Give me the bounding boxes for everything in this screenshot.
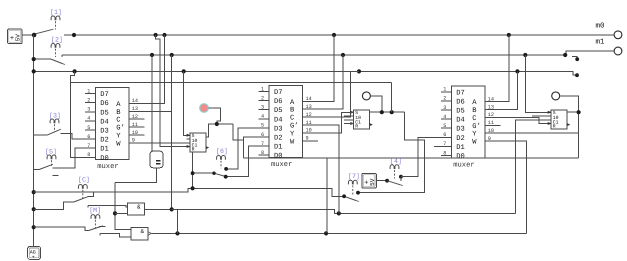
- wire FF1 pin2 stub: [187, 138, 191, 140]
- node row227 tap: [32, 225, 36, 229]
- svg-text:12: 12: [488, 112, 494, 118]
- switch 1 actuator coil: [51, 16, 60, 20]
- switch 1 right contact: [72, 33, 76, 37]
- switch 1 actuator link: [55, 21, 57, 29]
- wire bus2 down to pulse box: [151, 55, 153, 151]
- switch 5 actuator coil: [47, 155, 56, 159]
- svg-text:D3: D3: [456, 126, 465, 134]
- flip-flop FF1 body: [190, 133, 206, 153]
- svg-text:B: B: [116, 109, 120, 117]
- wire bus1 to muxer U3 pin14: [495, 35, 509, 102]
- ground AG symbol: [28, 246, 41, 260]
- red probe LED: [200, 104, 209, 113]
- svg-text:W: W: [290, 138, 295, 146]
- node row192 tap: [32, 190, 36, 194]
- wire FF1 branch to switch 6: [193, 172, 214, 174]
- wire red probe to FF1 output: [208, 108, 220, 124]
- svg-text:12: 12: [132, 114, 138, 120]
- power source PS1 +5V: [8, 29, 23, 44]
- svg-text:+: +: [10, 35, 14, 43]
- muxer U3 body: [451, 86, 485, 170]
- svg-text:m1: m1: [596, 38, 606, 46]
- svg-text:D4: D4: [274, 116, 283, 124]
- wire gate G2 second input: [100, 234, 131, 237]
- svg-text:B: B: [290, 107, 294, 115]
- svg-text:6: 6: [261, 132, 264, 138]
- wire row212 to FF3 R input: [516, 120, 551, 214]
- switch 7 actuator link: [352, 185, 354, 194]
- svg-text:11: 11: [488, 120, 494, 126]
- svg-text:2: 2: [443, 96, 446, 102]
- svg-text:4: 4: [261, 114, 264, 120]
- wire row192 long to switch 7: [34, 188, 344, 196]
- wire row233 to muxer U3 pin9: [495, 141, 526, 233]
- svg-text:3: 3: [261, 105, 264, 111]
- wire muxer U2 Y to FF2 S: [313, 112, 354, 133]
- svg-text:[5]: [5]: [45, 148, 57, 155]
- svg-text:D2: D2: [456, 135, 465, 143]
- svg-text:9: 9: [306, 136, 309, 142]
- wire main left column: [33, 35, 35, 246]
- svg-text:&: &: [141, 228, 145, 235]
- switch 4 lever: [387, 181, 403, 186]
- wire FF3 output: [567, 111, 579, 113]
- wire switch 3 feed: [34, 134, 48, 136]
- svg-text:5: 5: [443, 123, 446, 129]
- output pin m1: [614, 47, 622, 55]
- svg-text:D7: D7: [274, 89, 283, 97]
- flip-flop FF2 body: [354, 110, 370, 130]
- svg-text:+: +: [32, 255, 35, 261]
- svg-text:10: 10: [132, 130, 138, 136]
- wire bus2 to muxer U2 pin13: [313, 55, 343, 109]
- node row233 b: [324, 231, 328, 235]
- node FF3 out: [577, 110, 581, 114]
- switch 2 actuator coil: [51, 44, 60, 48]
- svg-text:10: 10: [306, 128, 312, 134]
- svg-text:4: 4: [443, 114, 446, 120]
- wire long feedback row82: [71, 82, 392, 84]
- svg-text:D3: D3: [100, 128, 109, 136]
- switch 7 lever: [344, 196, 359, 201]
- switch 3 actuator link: [54, 124, 56, 132]
- svg-text:B: B: [472, 107, 476, 115]
- svg-text:12: 12: [306, 112, 312, 118]
- switch 7 actuator coil: [348, 180, 357, 184]
- wire bus3 to FF1 S input: [184, 71, 190, 135]
- flip-flop FF2 input markers: [350, 111, 354, 125]
- switch 6 actuator coil: [217, 156, 226, 160]
- svg-text:muxer: muxer: [453, 161, 474, 169]
- wire bus3: [34, 71, 577, 75]
- wire FF2 C1 stub: [344, 115, 354, 117]
- node switch 4 common: [385, 179, 389, 183]
- output circle FF3: [552, 92, 560, 100]
- svg-text:R: R: [553, 124, 556, 130]
- switch M contact dash: [99, 225, 106, 227]
- wire FF1 Q to muxer U2 pin6 net: [233, 124, 244, 140]
- node bus1 to rounded box: [154, 33, 158, 37]
- svg-text:6: 6: [443, 132, 446, 138]
- switch 6 lower contact to muxer U2 pin7: [224, 146, 259, 179]
- wire bus2 down to gate row: [171, 55, 173, 209]
- svg-text:&: &: [137, 204, 141, 211]
- wire pulse column down to gate G2: [115, 183, 131, 230]
- svg-text:10: 10: [488, 128, 494, 134]
- svg-text:W: W: [472, 139, 477, 147]
- node bus3 to muxer U1 D0: [73, 69, 77, 73]
- svg-text:D0: D0: [100, 155, 109, 163]
- wire FF3 C1 stub: [532, 115, 551, 117]
- wire muxer U3 pin7 stub ext: [434, 145, 441, 147]
- svg-text:D4: D4: [100, 118, 109, 126]
- svg-text:[7]: [7]: [348, 173, 360, 180]
- svg-text:D4: D4: [456, 117, 465, 125]
- svg-text:3: 3: [87, 107, 90, 113]
- wire row158 drop to row233: [326, 158, 328, 233]
- switch M lever: [89, 226, 103, 231]
- wire bus3 to muxer U1 pin8: [71, 71, 85, 157]
- switch 5 lever: [40, 164, 53, 169]
- switch 3 contact and wire to muxer U1 pin6: [61, 134, 85, 140]
- svg-text:D7: D7: [456, 89, 465, 97]
- gate G2 second input tick: [99, 234, 101, 236]
- wire FF2 R stub: [344, 119, 354, 121]
- svg-text:11: 11: [132, 122, 138, 128]
- wire +5V2 to switch 4: [376, 180, 387, 182]
- svg-text:6: 6: [87, 134, 90, 140]
- wire pulse box down to gate column: [115, 168, 156, 183]
- node bus3 to muxer U3 B: [515, 69, 519, 73]
- svg-text:Y: Y: [290, 130, 295, 138]
- switch 4 contact: [399, 175, 403, 181]
- node row209 tap: [32, 207, 36, 211]
- svg-text:3: 3: [443, 105, 446, 111]
- muxer U1 right pins 14-9: [129, 98, 145, 144]
- switch 6 lever: [214, 173, 228, 177]
- wire bus1 to muxer U2 pin14: [313, 35, 334, 101]
- svg-text:[4]: [4]: [390, 158, 402, 165]
- svg-text:[6]: [6]: [216, 148, 228, 155]
- wire muxer U2 pin6 stub down: [243, 137, 258, 158]
- svg-text:7: 7: [87, 143, 90, 149]
- svg-text:D7: D7: [100, 91, 109, 99]
- svg-text:8: 8: [87, 152, 90, 158]
- node bus1 to muxer U1 A: [162, 33, 166, 37]
- svg-text:S: S: [355, 110, 358, 116]
- node gate G1 output: [170, 207, 174, 211]
- switch 2 upper contact tick: [61, 55, 63, 57]
- wire row209 to switch C pivot: [34, 202, 74, 210]
- switch 3 lever: [48, 129, 61, 135]
- wire link gate rows: [177, 209, 179, 233]
- muxer U3 left pins 1-8: [441, 87, 452, 157]
- wire row227 to switch M: [34, 227, 89, 230]
- wire row212 to muxer U2 pin11: [313, 125, 339, 213]
- svg-text:D2: D2: [100, 137, 109, 145]
- wire bus1 (row m0): [64, 34, 614, 36]
- svg-text:S: S: [553, 110, 556, 116]
- svg-text:2: 2: [261, 95, 264, 101]
- svg-text:D6: D6: [456, 98, 465, 106]
- node FF2 out a: [380, 110, 384, 114]
- switch C actuator coil: [78, 185, 87, 189]
- svg-text:[3]: [3]: [49, 112, 61, 119]
- svg-text:C: C: [472, 115, 476, 123]
- switch 4 actuator coil: [390, 165, 399, 169]
- flip-flop FF3 input markers: [548, 111, 552, 125]
- wire muxer U1 W to FF1 C1 input: [129, 142, 190, 144]
- svg-text:W: W: [116, 140, 121, 148]
- wire row212 long: [172, 209, 516, 213]
- node bus3 end contact: [575, 73, 579, 77]
- wire FF2 out to switch 7 contact: [358, 112, 425, 193]
- svg-text:A: A: [290, 99, 295, 107]
- svg-text:A: A: [472, 99, 477, 107]
- wire bus1 jog down to FF1 R: [156, 35, 190, 147]
- node pulse column: [113, 211, 117, 215]
- svg-text:13: 13: [488, 104, 494, 110]
- svg-text:4: 4: [87, 116, 90, 122]
- svg-text:5V: 5V: [15, 34, 22, 42]
- svg-text:D0: D0: [274, 153, 283, 161]
- wire FF2 lower stub: [344, 123, 354, 125]
- node bus3 to flip-flop FF1: [182, 69, 186, 73]
- svg-text:1: 1: [443, 87, 446, 93]
- wire node to gate G1 lower input: [115, 212, 127, 214]
- svg-text:7: 7: [261, 141, 264, 147]
- switch C lower contact tick: [87, 205, 89, 207]
- muxer U2 left pins 1-8: [259, 86, 270, 156]
- node bus3 to muxer U2 C: [357, 69, 361, 73]
- switch 5 upper contact and wire to muxer U1 pin7: [53, 148, 85, 168]
- wire row158 long: [243, 157, 578, 159]
- svg-text:1: 1: [261, 86, 264, 92]
- switch m1 open contact: [572, 57, 579, 62]
- node bus2 to muxer U1 B: [170, 53, 174, 57]
- flip-flop FF2 output arrow: [370, 123, 373, 126]
- switch C lower contact to gate G1: [88, 205, 127, 207]
- wire gate G1 output: [145, 208, 172, 210]
- node bus1 to muxer U2 A: [332, 33, 336, 37]
- svg-text:[C]: [C]: [78, 176, 90, 183]
- and gate G2: [131, 228, 151, 241]
- svg-text:D5: D5: [456, 108, 465, 116]
- switch C lever: [74, 196, 89, 202]
- power source PS2 +5V: [362, 174, 377, 189]
- svg-text:1: 1: [87, 88, 90, 94]
- wire row233 long: [151, 232, 526, 234]
- node FF2 out b: [390, 110, 394, 114]
- switch 2 lever: [51, 59, 65, 64]
- muxer U2 right pins 14-9: [303, 96, 319, 142]
- node row212 to muxer U2 G': [337, 211, 341, 215]
- node FF1 Q junction: [215, 122, 219, 126]
- svg-text:C: C: [290, 115, 294, 123]
- wire FF2 output row: [369, 111, 404, 113]
- wire bus3 to muxer U3 pin13: [495, 71, 517, 109]
- node m1 switch common: [563, 53, 567, 57]
- switch M actuator coil: [91, 215, 100, 219]
- svg-text:S: S: [192, 133, 195, 139]
- svg-text:D6: D6: [100, 100, 109, 108]
- svg-text:8: 8: [443, 150, 446, 156]
- switch C upper contact link: [88, 192, 94, 196]
- svg-text:14: 14: [306, 96, 312, 102]
- svg-text:2: 2: [87, 98, 90, 104]
- muxer U3 right pins 14-9: [485, 96, 501, 141]
- flip-flop FF3 output arrow: [567, 123, 570, 126]
- svg-text:G’: G’: [116, 124, 125, 133]
- svg-text:D5: D5: [100, 109, 109, 117]
- svg-text:D1: D1: [456, 144, 465, 152]
- svg-text:[M]: [M]: [89, 207, 101, 214]
- svg-text:8: 8: [261, 150, 264, 156]
- node bus1 to muxer U3 A: [507, 33, 511, 37]
- wire FF3 circle link: [560, 96, 579, 158]
- wire +5V to main node: [23, 34, 35, 36]
- svg-text:D6: D6: [274, 98, 283, 106]
- switch 3 actuator coil: [50, 119, 59, 123]
- svg-text:G’: G’: [472, 122, 481, 131]
- svg-text:D2: D2: [274, 135, 283, 143]
- wire FF2 out up link: [391, 83, 393, 113]
- muxer U1 body: [95, 88, 129, 172]
- wire bus2 to FF3 S input: [525, 55, 551, 112]
- wire m1 pin: [566, 51, 614, 55]
- svg-text:R: R: [355, 124, 358, 130]
- node bus3 tap: [32, 69, 36, 73]
- node bus2 to flip-flop FF3: [523, 53, 527, 57]
- svg-text:D5: D5: [274, 107, 283, 115]
- svg-text:muxer: muxer: [271, 161, 292, 169]
- svg-text:A: A: [116, 101, 121, 109]
- svg-text:[1]: [1]: [50, 9, 62, 16]
- node bus2 to pulse box: [150, 53, 154, 57]
- svg-text:5V: 5V: [369, 178, 376, 186]
- svg-text:5: 5: [87, 125, 90, 131]
- flip-flop FF3 body: [551, 110, 567, 130]
- muxer U2 body: [269, 86, 303, 170]
- wire switch 5 feed: [34, 168, 40, 170]
- wire switch 4 to muxer U3 pin6: [401, 137, 441, 176]
- flip-flop FF1 input markers: [187, 134, 191, 148]
- node FF1 branch: [191, 171, 195, 175]
- svg-text:Y: Y: [116, 133, 121, 141]
- svg-text:9: 9: [488, 136, 491, 142]
- svg-text:+: +: [364, 179, 368, 187]
- switch C actuator link: [82, 190, 84, 199]
- wire FF1 Q to junction: [205, 124, 233, 137]
- and gate G1: [127, 203, 144, 215]
- svg-text:C: C: [116, 117, 120, 125]
- switch 6 actuator link: [220, 161, 222, 169]
- wire FF2 circle link: [371, 96, 382, 112]
- muxer U1 left pins 1-8: [85, 88, 96, 158]
- wire muxer U1 pin13 branch: [129, 110, 172, 112]
- svg-text:11: 11: [306, 120, 312, 126]
- svg-text:G’: G’: [290, 122, 299, 131]
- node switch 6 pivot: [212, 172, 215, 175]
- svg-text:5: 5: [261, 123, 264, 129]
- wire bus3 to muxer U2 pin12: [313, 71, 359, 117]
- wire FF1 down to row192: [192, 152, 194, 189]
- node main +5V junction: [32, 33, 37, 38]
- switch 6 upper contact to muxer U2 pin5: [224, 128, 258, 171]
- switch 7 contact: [356, 191, 360, 195]
- svg-text:14: 14: [488, 96, 494, 102]
- flip-flop FF1 output arrow: [206, 146, 209, 149]
- wire muxer U3 Y to output rail: [495, 132, 578, 134]
- node switch 2 feed: [32, 57, 36, 61]
- switch 4 actuator link: [394, 170, 396, 179]
- pulse generator box: [150, 151, 163, 168]
- node row233 a: [175, 231, 179, 235]
- svg-text:D1: D1: [274, 144, 283, 152]
- switch 1 lever: [36, 29, 54, 34]
- svg-text:D3: D3: [274, 125, 283, 133]
- svg-text:D1: D1: [100, 146, 109, 154]
- wire bus1 to muxer U1 pin14: [129, 35, 165, 103]
- switch 2 actuator link: [55, 49, 57, 57]
- svg-text:D0: D0: [456, 153, 465, 161]
- node switch 7 common: [342, 194, 346, 198]
- svg-text:muxer: muxer: [97, 163, 118, 171]
- wire switch 2 feed: [34, 58, 51, 60]
- svg-text:13: 13: [306, 104, 312, 110]
- switch 5 lower contact: [53, 174, 59, 176]
- switch 5 actuator link: [51, 160, 53, 166]
- svg-text:[2]: [2]: [51, 37, 63, 44]
- node FF1 to row192: [191, 186, 195, 190]
- svg-text:7: 7: [443, 141, 446, 147]
- svg-text:m0: m0: [596, 21, 606, 30]
- svg-text:Y: Y: [472, 131, 477, 139]
- output circle FF2: [362, 92, 370, 100]
- node bus2 to muxer U2 B: [341, 53, 345, 57]
- output pin m0: [614, 31, 622, 39]
- switch M actuator link: [94, 220, 96, 228]
- wire muxer U3 C to FF3 lower input: [495, 117, 551, 123]
- wire bus2 (row m1): [62, 54, 565, 56]
